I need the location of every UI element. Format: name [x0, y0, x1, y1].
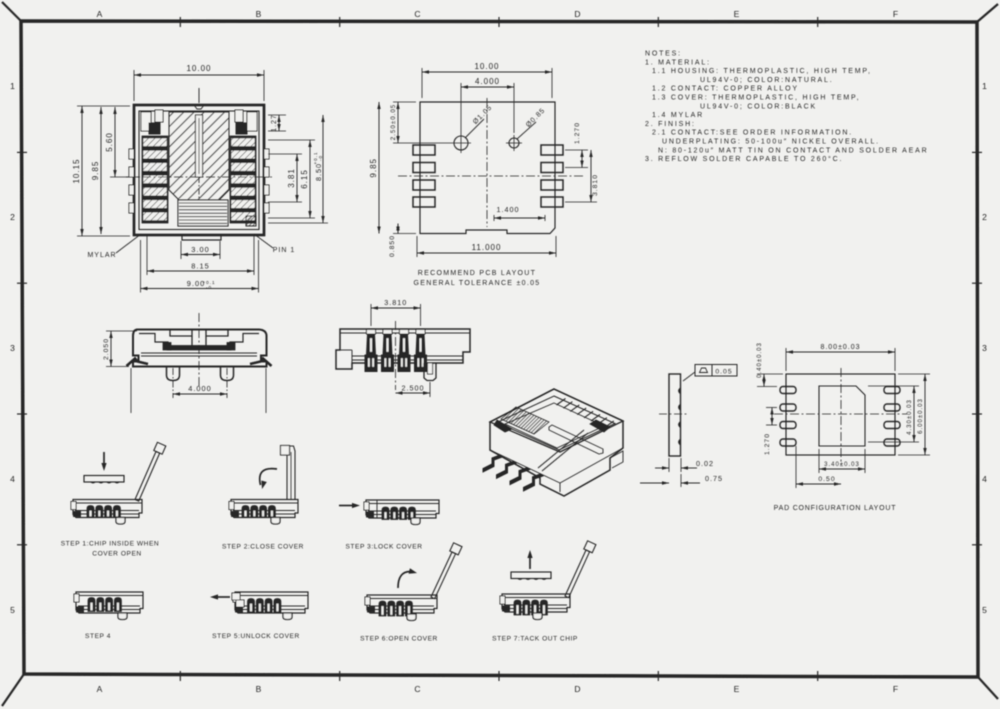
- dim 8.00±0.03: [785, 348, 787, 371]
- svg-text:1: 1: [982, 81, 988, 91]
- thin side bumps: [679, 388, 681, 394]
- front view contact band (dark): [167, 346, 231, 351]
- iso cover seam: [538, 430, 584, 468]
- step1 chip: [84, 476, 124, 483]
- pcb vertical centerline: [486, 98, 488, 227]
- svg-text:2.50±0.05: 2.50±0.05: [390, 104, 397, 140]
- dim 0.40±0.03: [757, 373, 783, 375]
- svg-text:-0: -0: [206, 285, 212, 290]
- pad layout centerline v: [840, 368, 842, 465]
- svg-text:5: 5: [10, 605, 16, 615]
- step5 body: [235, 592, 308, 613]
- flatness leader: [683, 372, 695, 381]
- svg-text:F: F: [893, 684, 899, 694]
- svg-text:1: 1: [10, 81, 16, 91]
- dim 10.15: [77, 105, 130, 107]
- svg-text:3.81: 3.81: [287, 168, 296, 188]
- front view peg right: [221, 367, 234, 381]
- dim 1.270 pad: [766, 407, 777, 409]
- step5 pull arrow: [216, 596, 230, 598]
- svg-text:PIN 1: PIN 1: [273, 247, 296, 254]
- top view horizontal centerline: [126, 176, 272, 178]
- svg-text:GENERAL TOLERANCE ±0.05: GENERAL TOLERANCE ±0.05: [414, 280, 541, 287]
- pcb outline: [420, 102, 555, 234]
- step7 up arrow: [529, 557, 531, 569]
- svg-text:STEP 4: STEP 4: [85, 633, 111, 640]
- dim 3.81: [268, 153, 302, 155]
- svg-text:9.85: 9.85: [91, 161, 100, 181]
- dim 10.00 (top view width): [133, 70, 135, 101]
- svg-text:1.1 HOUSING: THERMOPLASTIC, HI: 1.1 HOUSING: THERMOPLASTIC, HIGH TEMP,: [652, 68, 872, 75]
- top view side tabs right: [264, 149, 269, 159]
- svg-text:RECOMMEND PCB LAYOUT: RECOMMEND PCB LAYOUT: [418, 270, 536, 277]
- dim pcb 3.810: [565, 201, 597, 203]
- svg-text:MYLAR: MYLAR: [87, 252, 116, 259]
- svg-text:1.27: 1.27: [271, 114, 278, 132]
- svg-text:STEP 1:CHIP INSIDE WHEN: STEP 1:CHIP INSIDE WHEN: [61, 541, 160, 548]
- pcb circle hole 0.85: [509, 138, 519, 148]
- side view contact pins: [365, 330, 377, 372]
- dim pcb 11.000: [416, 236, 418, 257]
- dim pcb 4.000: [460, 83, 462, 133]
- svg-text:3.810: 3.810: [384, 298, 407, 307]
- dim 9.00±0.1: [140, 240, 142, 293]
- dim pcb 2.50±0.05: [393, 101, 416, 103]
- svg-text:B: B: [256, 684, 263, 694]
- svg-text:4: 4: [10, 474, 16, 484]
- svg-text:1.270: 1.270: [574, 122, 581, 144]
- svg-text:1.270: 1.270: [764, 433, 771, 455]
- svg-text:5: 5: [982, 605, 988, 615]
- corner trim mark top-right: [977, 4, 998, 22]
- top view center slot: [196, 115, 203, 177]
- iso inner rim: [497, 396, 615, 450]
- top view right contact pads: [230, 136, 256, 223]
- top view corner post top-left: [141, 112, 151, 131]
- corner trim mark bottom-left: [2, 674, 24, 706]
- svg-text:3.00: 3.00: [191, 245, 209, 254]
- front view peg left: [167, 367, 180, 381]
- svg-text:E: E: [734, 684, 741, 694]
- svg-text:E: E: [734, 9, 741, 19]
- front view centerline: [198, 313, 200, 388]
- svg-text:STEP 7:TACK OUT CHIP: STEP 7:TACK OUT CHIP: [492, 636, 578, 643]
- iso pins: [483, 455, 503, 472]
- svg-text:3: 3: [10, 343, 16, 353]
- svg-text:4.30±0.03: 4.30±0.03: [907, 399, 913, 435]
- svg-text:STEP 3:LOCK COVER: STEP 3:LOCK COVER: [345, 544, 422, 551]
- dim 1.27: [268, 114, 286, 116]
- svg-text:UL94V-0; COLOR:BLACK: UL94V-0; COLOR:BLACK: [700, 103, 817, 110]
- dim 10.20±0.1: [130, 368, 132, 413]
- iso spring bar: [549, 425, 603, 454]
- pcb right pads: [541, 145, 563, 155]
- svg-text:N: 80-120u″ MATT TIN ON CONTAC: N: 80-120u″ MATT TIN ON CONTACT AND SOLD…: [658, 147, 928, 154]
- front view mylar lines: [141, 352, 257, 354]
- top view mylar area (lined): [178, 200, 228, 226]
- step7 open cover: [565, 550, 590, 598]
- svg-text:2.1 CONTACT:SEE ORDER INFORMAT: 2.1 CONTACT:SEE ORDER INFORMATION.: [652, 130, 853, 137]
- iso outer silhouette: [490, 389, 623, 496]
- dim 9.85: [100, 107, 102, 234]
- top view center mark above body: [198, 88, 200, 103]
- svg-text:NOTES:: NOTES:: [645, 51, 682, 58]
- step6 curl arrow: [398, 571, 411, 588]
- top view inner wall: [139, 111, 259, 230]
- svg-text:6.00±0.03: 6.00±0.03: [918, 398, 924, 434]
- dim pcb 10.00: [421, 68, 423, 98]
- svg-text:9.85: 9.85: [369, 158, 378, 178]
- svg-text:6.15: 6.15: [300, 169, 309, 189]
- svg-text:D: D: [574, 684, 581, 694]
- top view center top notch: [194, 105, 204, 109]
- svg-text:0.05: 0.05: [715, 369, 732, 376]
- svg-text:PAD CONFIGURATION LAYOUT: PAD CONFIGURATION LAYOUT: [774, 505, 897, 512]
- iso top rim: [490, 389, 623, 452]
- pad layout centerline h: [774, 413, 907, 415]
- step7 chip ejected: [511, 572, 551, 579]
- step6 open cover: [431, 552, 456, 599]
- step2 curl arrow: [260, 469, 277, 485]
- svg-text:0.50: 0.50: [818, 476, 835, 483]
- step7 body: [502, 594, 570, 612]
- iso right tab: [610, 451, 623, 468]
- svg-text:2: 2: [10, 212, 16, 222]
- step1 body: [73, 500, 142, 518]
- top view side tabs left: [129, 149, 134, 159]
- svg-text:11.000: 11.000: [472, 243, 502, 252]
- dim 3.810 side: [370, 304, 372, 326]
- svg-text:2.500: 2.500: [402, 384, 425, 393]
- svg-text:STEP 2:CLOSE COVER: STEP 2:CLOSE COVER: [222, 544, 304, 551]
- side view body: [336, 329, 470, 369]
- svg-text:0.02: 0.02: [696, 459, 714, 468]
- front view top steps: [170, 330, 192, 337]
- svg-text:F: F: [893, 9, 899, 19]
- top view corner post top-left small: [155, 110, 163, 122]
- front view foot hook left: [127, 359, 149, 367]
- dim pcb 9.85: [378, 102, 380, 234]
- leader ⌀0.85: [517, 122, 536, 139]
- front view body outline: [133, 330, 267, 367]
- svg-text:4: 4: [982, 474, 988, 484]
- front view inner cavity profile: [139, 334, 168, 347]
- svg-text:B: B: [256, 9, 263, 19]
- svg-text:10.00: 10.00: [474, 62, 499, 71]
- svg-text:1.2 CONTACT: COPPER ALLOY: 1.2 CONTACT: COPPER ALLOY: [652, 86, 799, 93]
- pad layout left pads: [780, 387, 796, 394]
- top view outer body: [134, 105, 264, 235]
- svg-text:1.400: 1.400: [497, 205, 520, 214]
- svg-text:4.000: 4.000: [475, 77, 500, 86]
- step4 body: [76, 592, 143, 613]
- svg-text:3: 3: [982, 343, 988, 353]
- svg-text:3.810: 3.810: [592, 174, 599, 196]
- top view central hatched housing: [169, 112, 229, 222]
- top view left contact pads: [142, 136, 168, 223]
- svg-text:A: A: [97, 684, 104, 694]
- top view dark latch left: [149, 123, 160, 134]
- svg-text:COVER OPEN: COVER OPEN: [92, 551, 141, 558]
- top view bottom tab: [182, 235, 221, 240]
- svg-text:10.00: 10.00: [186, 64, 211, 73]
- flatness callout box: [695, 365, 737, 377]
- iso front edge lines: [490, 450, 560, 483]
- svg-text:0.850: 0.850: [389, 235, 396, 257]
- svg-text:0.40±0.03: 0.40±0.03: [757, 342, 763, 378]
- leader ⌀1.05: [465, 119, 484, 138]
- top view dark latch right: [236, 123, 247, 134]
- svg-text:UNDERPLATING: 50-100u″ NICKEL: UNDERPLATING: 50-100u″ NICKEL OVERALL.: [662, 139, 880, 146]
- dim 8.50±0.1: [268, 222, 328, 224]
- svg-text:1.4 MYLAR: 1.4 MYLAR: [652, 112, 704, 119]
- svg-text:10.15: 10.15: [72, 158, 81, 183]
- dim 3.00 (bottom tab): [180, 241, 182, 259]
- dim 4.000 front: [172, 368, 174, 398]
- svg-text:1. MATERIAL:: 1. MATERIAL:: [645, 59, 711, 66]
- side view centerline: [395, 321, 397, 390]
- pad layout sim cutout: [819, 386, 865, 446]
- svg-text:5.60: 5.60: [105, 132, 114, 152]
- svg-text:2.050: 2.050: [103, 338, 110, 360]
- svg-text:8.00±0.03: 8.00±0.03: [820, 344, 860, 351]
- step3 body closed: [366, 500, 439, 518]
- front view foot hook right: [250, 359, 272, 367]
- dim pcb 1.270: [565, 149, 588, 151]
- dim pcb 0.850: [393, 233, 416, 235]
- svg-text:C: C: [414, 684, 421, 694]
- dim 8.15: [146, 236, 148, 275]
- dim 4.30±0.03: [868, 385, 919, 387]
- iso dark wedge left: [494, 420, 512, 432]
- dim 2.050: [106, 330, 137, 332]
- dim 0.50: [795, 446, 797, 488]
- thin side body: [669, 374, 681, 456]
- svg-text:UL94V-0; COLOR:NATURAL.: UL94V-0; COLOR:NATURAL.: [700, 77, 833, 84]
- dim 6.00±0.03: [898, 373, 930, 375]
- svg-text:STEP 5:UNLOCK COVER: STEP 5:UNLOCK COVER: [212, 633, 300, 640]
- step3 push arrow: [339, 505, 353, 507]
- svg-text:8.15: 8.15: [191, 262, 209, 271]
- iso hatched cover patch: [501, 407, 549, 434]
- svg-text:1.3 COVER: THERMOPLASTIC, HI: 1.3 COVER: THERMOPLASTIC, HIGH TEMP,: [652, 95, 860, 102]
- svg-text:4.000: 4.000: [188, 384, 212, 393]
- dim 2.500: [429, 382, 431, 397]
- top view corner post top-right small: [235, 110, 243, 122]
- svg-text:0.75: 0.75: [705, 474, 723, 483]
- pcb horizontal centerline: [398, 175, 585, 177]
- side view bottom hook: [424, 363, 436, 381]
- step1 open cover: [135, 452, 160, 502]
- step2 body: [231, 500, 298, 518]
- iso dark wedge right: [590, 420, 610, 432]
- step5 unlock latch: [232, 593, 240, 600]
- dim 3.40±0.03: [818, 449, 820, 473]
- corner trim mark top-left: [2, 2, 21, 21]
- svg-text:2: 2: [982, 212, 988, 222]
- svg-text:STEP 6:OPEN COVER: STEP 6:OPEN COVER: [360, 636, 438, 643]
- svg-text:-0: -0: [318, 155, 323, 161]
- front view center block: [191, 336, 193, 346]
- corner trim mark bottom-right: [978, 677, 998, 699]
- svg-text:A: A: [97, 9, 104, 19]
- svg-text:8.50: 8.50: [314, 163, 323, 181]
- step1 down arrow: [103, 452, 105, 464]
- svg-text:3.40±0.03: 3.40±0.03: [824, 462, 860, 468]
- pcb left pads: [413, 145, 435, 155]
- thin side centerline: [659, 413, 687, 415]
- dim 6.15: [268, 139, 315, 141]
- svg-text:3. REFLOW SOLDER CAPABLE TO 26: 3. REFLOW SOLDER CAPABLE TO 260°C.: [645, 155, 843, 163]
- top view dark corner bottom-right: [246, 216, 256, 226]
- svg-text:2. FINISH:: 2. FINISH:: [645, 121, 696, 128]
- top view corner post top-right: [247, 112, 257, 131]
- step2 vertical cover: [287, 446, 295, 500]
- pcb circle hole 1.05: [454, 136, 468, 150]
- iso slot lines: [557, 399, 566, 406]
- step6 body: [367, 595, 437, 613]
- pad layout right pads: [884, 387, 900, 394]
- iso cavity: [505, 403, 604, 448]
- pad layout outline: [786, 374, 895, 455]
- svg-text:D: D: [574, 9, 581, 19]
- svg-text:C: C: [414, 9, 421, 19]
- dim 5.60: [110, 176, 140, 178]
